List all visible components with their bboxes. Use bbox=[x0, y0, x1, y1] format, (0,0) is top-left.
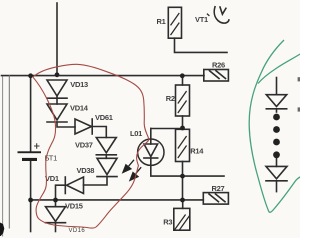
svg-text:VD14: VD14 bbox=[70, 103, 89, 112]
svg-text:R26: R26 bbox=[212, 60, 225, 69]
svg-text:VD37: VD37 bbox=[75, 141, 93, 150]
svg-text:VD61: VD61 bbox=[95, 113, 113, 122]
svg-text:R1: R1 bbox=[157, 17, 166, 26]
svg-text:R14: R14 bbox=[190, 146, 204, 155]
svg-text:VD38: VD38 bbox=[77, 166, 95, 175]
svg-text:VD15: VD15 bbox=[65, 202, 83, 211]
svg-text:R27: R27 bbox=[212, 184, 225, 193]
svg-text:VD13: VD13 bbox=[70, 80, 88, 89]
svg-text:VD1: VD1 bbox=[45, 174, 59, 183]
svg-text:R3: R3 bbox=[163, 218, 172, 227]
svg-text:VD16: VD16 bbox=[69, 228, 86, 234]
svg-text:R2: R2 bbox=[166, 94, 175, 103]
svg-text:VT1: VT1 bbox=[195, 15, 208, 24]
svg-text:L01: L01 bbox=[130, 129, 142, 138]
